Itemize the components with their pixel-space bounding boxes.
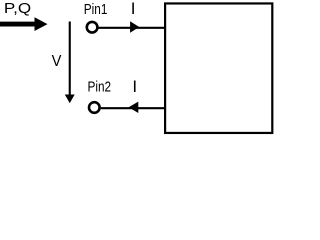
two-port block box [165,3,272,133]
wire Pin2 to box [101,107,165,109]
terminal Pin2 [89,102,100,113]
current arrow I into Pin1 [130,21,139,33]
svg-text:V: V [52,53,62,70]
voltage arrow V (line) [69,22,71,97]
svg-text:I: I [131,0,136,18]
svg-text:Pin2: Pin2 [88,79,112,96]
power flow arrow [0,17,48,31]
svg-text:P,Q: P,Q [4,0,31,17]
svg-text:Pin1: Pin1 [84,1,108,18]
terminal Pin1 [87,22,98,33]
wire Pin1 to box [99,27,166,29]
voltage arrow V (head) [65,95,75,104]
svg-text:I: I [132,77,137,96]
current arrow I out of Pin2 [129,102,139,113]
